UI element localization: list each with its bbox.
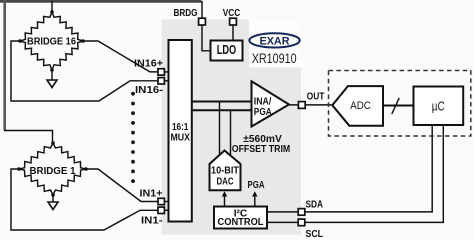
regulator block LDO <box>211 41 243 61</box>
bridge sensor BRIDGE 1: zigzag edge bottom-left <box>19 169 53 195</box>
dac U2 10-BIT DAC (pentagon) <box>210 151 241 191</box>
svg-text:PGA: PGA <box>248 180 265 191</box>
microcontroller block uC <box>414 87 464 126</box>
wire: SCL vertical to uC <box>442 125 444 222</box>
svg-text:VCC: VCC <box>223 8 241 19</box>
svg-text:BRIDGE 16: BRIDGE 16 <box>27 36 76 47</box>
wire: bridge supply top rail (thick, clipped at page edge) to BRDG pin <box>0 0 202 3</box>
wire: bridge1 left vertex loop to IN1- pin <box>11 169 158 230</box>
pin SCL <box>298 219 305 226</box>
svg-text:IN1+: IN1+ <box>140 188 163 199</box>
svg-text:INA/: INA/ <box>254 97 272 108</box>
wire: IN16+ pin stub to MUX <box>164 71 169 73</box>
node BRIDGE 16 bottom vertex junction <box>50 68 54 72</box>
logo EXAR (ellipse) <box>249 33 299 47</box>
wire: offset trim tap from - wire down to DAC <box>230 110 232 155</box>
dashed box: external host system <box>329 71 471 137</box>
bus slash mark <box>392 98 399 114</box>
wire: bridge16 left vertex loop to IN16- pin <box>11 41 158 101</box>
bridge sensor BRIDGE 16: zigzag edge top-left <box>20 12 52 41</box>
svg-text:DAC: DAC <box>217 177 234 188</box>
op-amp U1 INA/PGA <box>252 81 290 126</box>
svg-text:SCL: SCL <box>306 229 324 239</box>
bridge sensor BRIDGE 1: zigzag edge top-left <box>19 143 53 169</box>
ellipsis dots: channels between bridge16 and bridge1 <box>131 92 135 96</box>
svg-text:BRIDGE 1: BRIDGE 1 <box>30 166 76 177</box>
wire: SDA vertical to uC <box>431 125 433 212</box>
pin IN16+ <box>158 69 164 75</box>
bridge sensor BRIDGE 16: zigzag edge top-right <box>52 12 83 41</box>
adc block ADC <box>332 86 383 126</box>
mux block 16:1 MUX <box>169 40 192 222</box>
svg-text:SDA: SDA <box>306 199 324 210</box>
node BRIDGE 16 left vertex junction <box>18 39 22 43</box>
wire: top rail drop to BRDG pin <box>201 1 203 19</box>
svg-text:BRDG: BRDG <box>174 8 198 19</box>
svg-text:LDO: LDO <box>217 43 237 57</box>
svg-text:OUT: OUT <box>307 91 325 102</box>
svg-text:IN16-: IN16- <box>135 85 163 96</box>
bridge sensor BRIDGE 16: zigzag edge bottom-left <box>20 41 52 70</box>
bridge sensor BRIDGE 1: zigzag edge bottom-right <box>53 169 86 195</box>
wire: left supply rail (thick, at page edge) <box>3 0 6 130</box>
pin IN1+ <box>158 198 164 204</box>
node BRIDGE 1 top vertex junction <box>51 141 55 145</box>
wire: I2C to SCL pin and microcontroller <box>267 221 444 223</box>
svg-text:10-BIT: 10-BIT <box>211 166 239 177</box>
svg-text:IN1-: IN1- <box>141 216 163 227</box>
svg-text:OFFSET TRIM: OFFSET TRIM <box>232 144 291 155</box>
wire: bridge16 top vertex to top rail <box>51 1 53 12</box>
wire: VCC pin to LDO top <box>232 25 234 41</box>
wire: bridge16 right vertex to IN16+ pin <box>83 41 158 72</box>
control block I2C CONTROL <box>214 207 267 229</box>
wire: I2C to SDA pin and microcontroller <box>267 211 433 213</box>
ground symbol below BRIDGE 1 <box>52 195 54 202</box>
svg-text:XR10910: XR10910 <box>252 51 297 66</box>
pin BRDG <box>199 18 206 25</box>
wire: IN16- pin stub to MUX <box>164 80 169 82</box>
wire: offset trim tap from + wire down to DAC <box>219 102 221 155</box>
wire: INA output to OUT pin and ADC <box>289 104 332 106</box>
wire: MUX output + to INA input <box>192 101 252 103</box>
svg-text:PGA: PGA <box>254 107 272 118</box>
wire: I2C control arrow to DAC <box>224 195 226 207</box>
bridge sensor BRIDGE 16: zigzag edge bottom-right <box>52 41 83 70</box>
chip body XR10910 (shaded region) <box>162 20 302 235</box>
wire: I2C control arrow to PGA <box>254 195 256 207</box>
ground symbol below BRIDGE 16 <box>51 70 53 80</box>
node BRIDGE 1 bottom vertex junction <box>51 193 55 197</box>
node BRIDGE 16 right vertex junction <box>81 39 85 43</box>
bridge sensor BRIDGE 1: zigzag edge top-right <box>53 143 86 169</box>
pin IN16- <box>158 78 164 84</box>
pin SDA <box>298 209 305 216</box>
wire: ADC to uC bus <box>383 105 414 107</box>
svg-text:IN16+: IN16+ <box>134 59 163 70</box>
svg-text:µC: µC <box>432 99 445 114</box>
svg-text:CONTROL: CONTROL <box>218 217 264 228</box>
pin IN1- <box>158 207 164 213</box>
wire: bridge1 right vertex to IN1+ pin <box>86 169 158 202</box>
svg-text:ADC: ADC <box>350 100 371 112</box>
svg-text:MUX: MUX <box>170 132 190 143</box>
node BRIDGE 1 left vertex junction <box>17 167 21 171</box>
node BRIDGE 1 right vertex junction <box>84 167 88 171</box>
wire: rail down to bridge1 top vertex <box>4 131 53 144</box>
wire: IN1+ pin stub to MUX <box>164 201 169 203</box>
wire: BRDG pin to LDO <box>202 25 211 51</box>
pin OUT <box>298 102 305 109</box>
wire: MUX output - to INA input <box>192 109 252 111</box>
pin VCC <box>230 18 237 25</box>
node BRIDGE 16 top vertex junction <box>50 10 54 14</box>
svg-text:EXAR: EXAR <box>260 35 290 47</box>
wire: IN1- pin stub to MUX <box>164 209 169 211</box>
